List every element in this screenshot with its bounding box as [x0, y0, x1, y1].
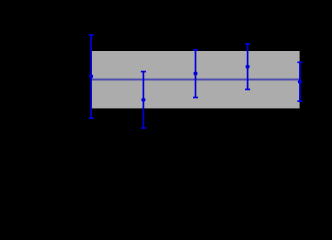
- marker 5: [298, 80, 302, 84]
- horizontal line: [91, 78, 300, 80]
- errorbar 2: [141, 72, 146, 128]
- errorbar 4: [245, 44, 250, 89]
- gray band: [91, 51, 300, 108]
- errorbar 1: [89, 35, 94, 118]
- marker 4: [246, 65, 250, 69]
- marker 1: [89, 74, 93, 78]
- errorbar 5: [297, 62, 302, 101]
- errorbar 3: [193, 50, 198, 98]
- marker 3: [193, 71, 197, 75]
- marker 2: [141, 98, 145, 102]
